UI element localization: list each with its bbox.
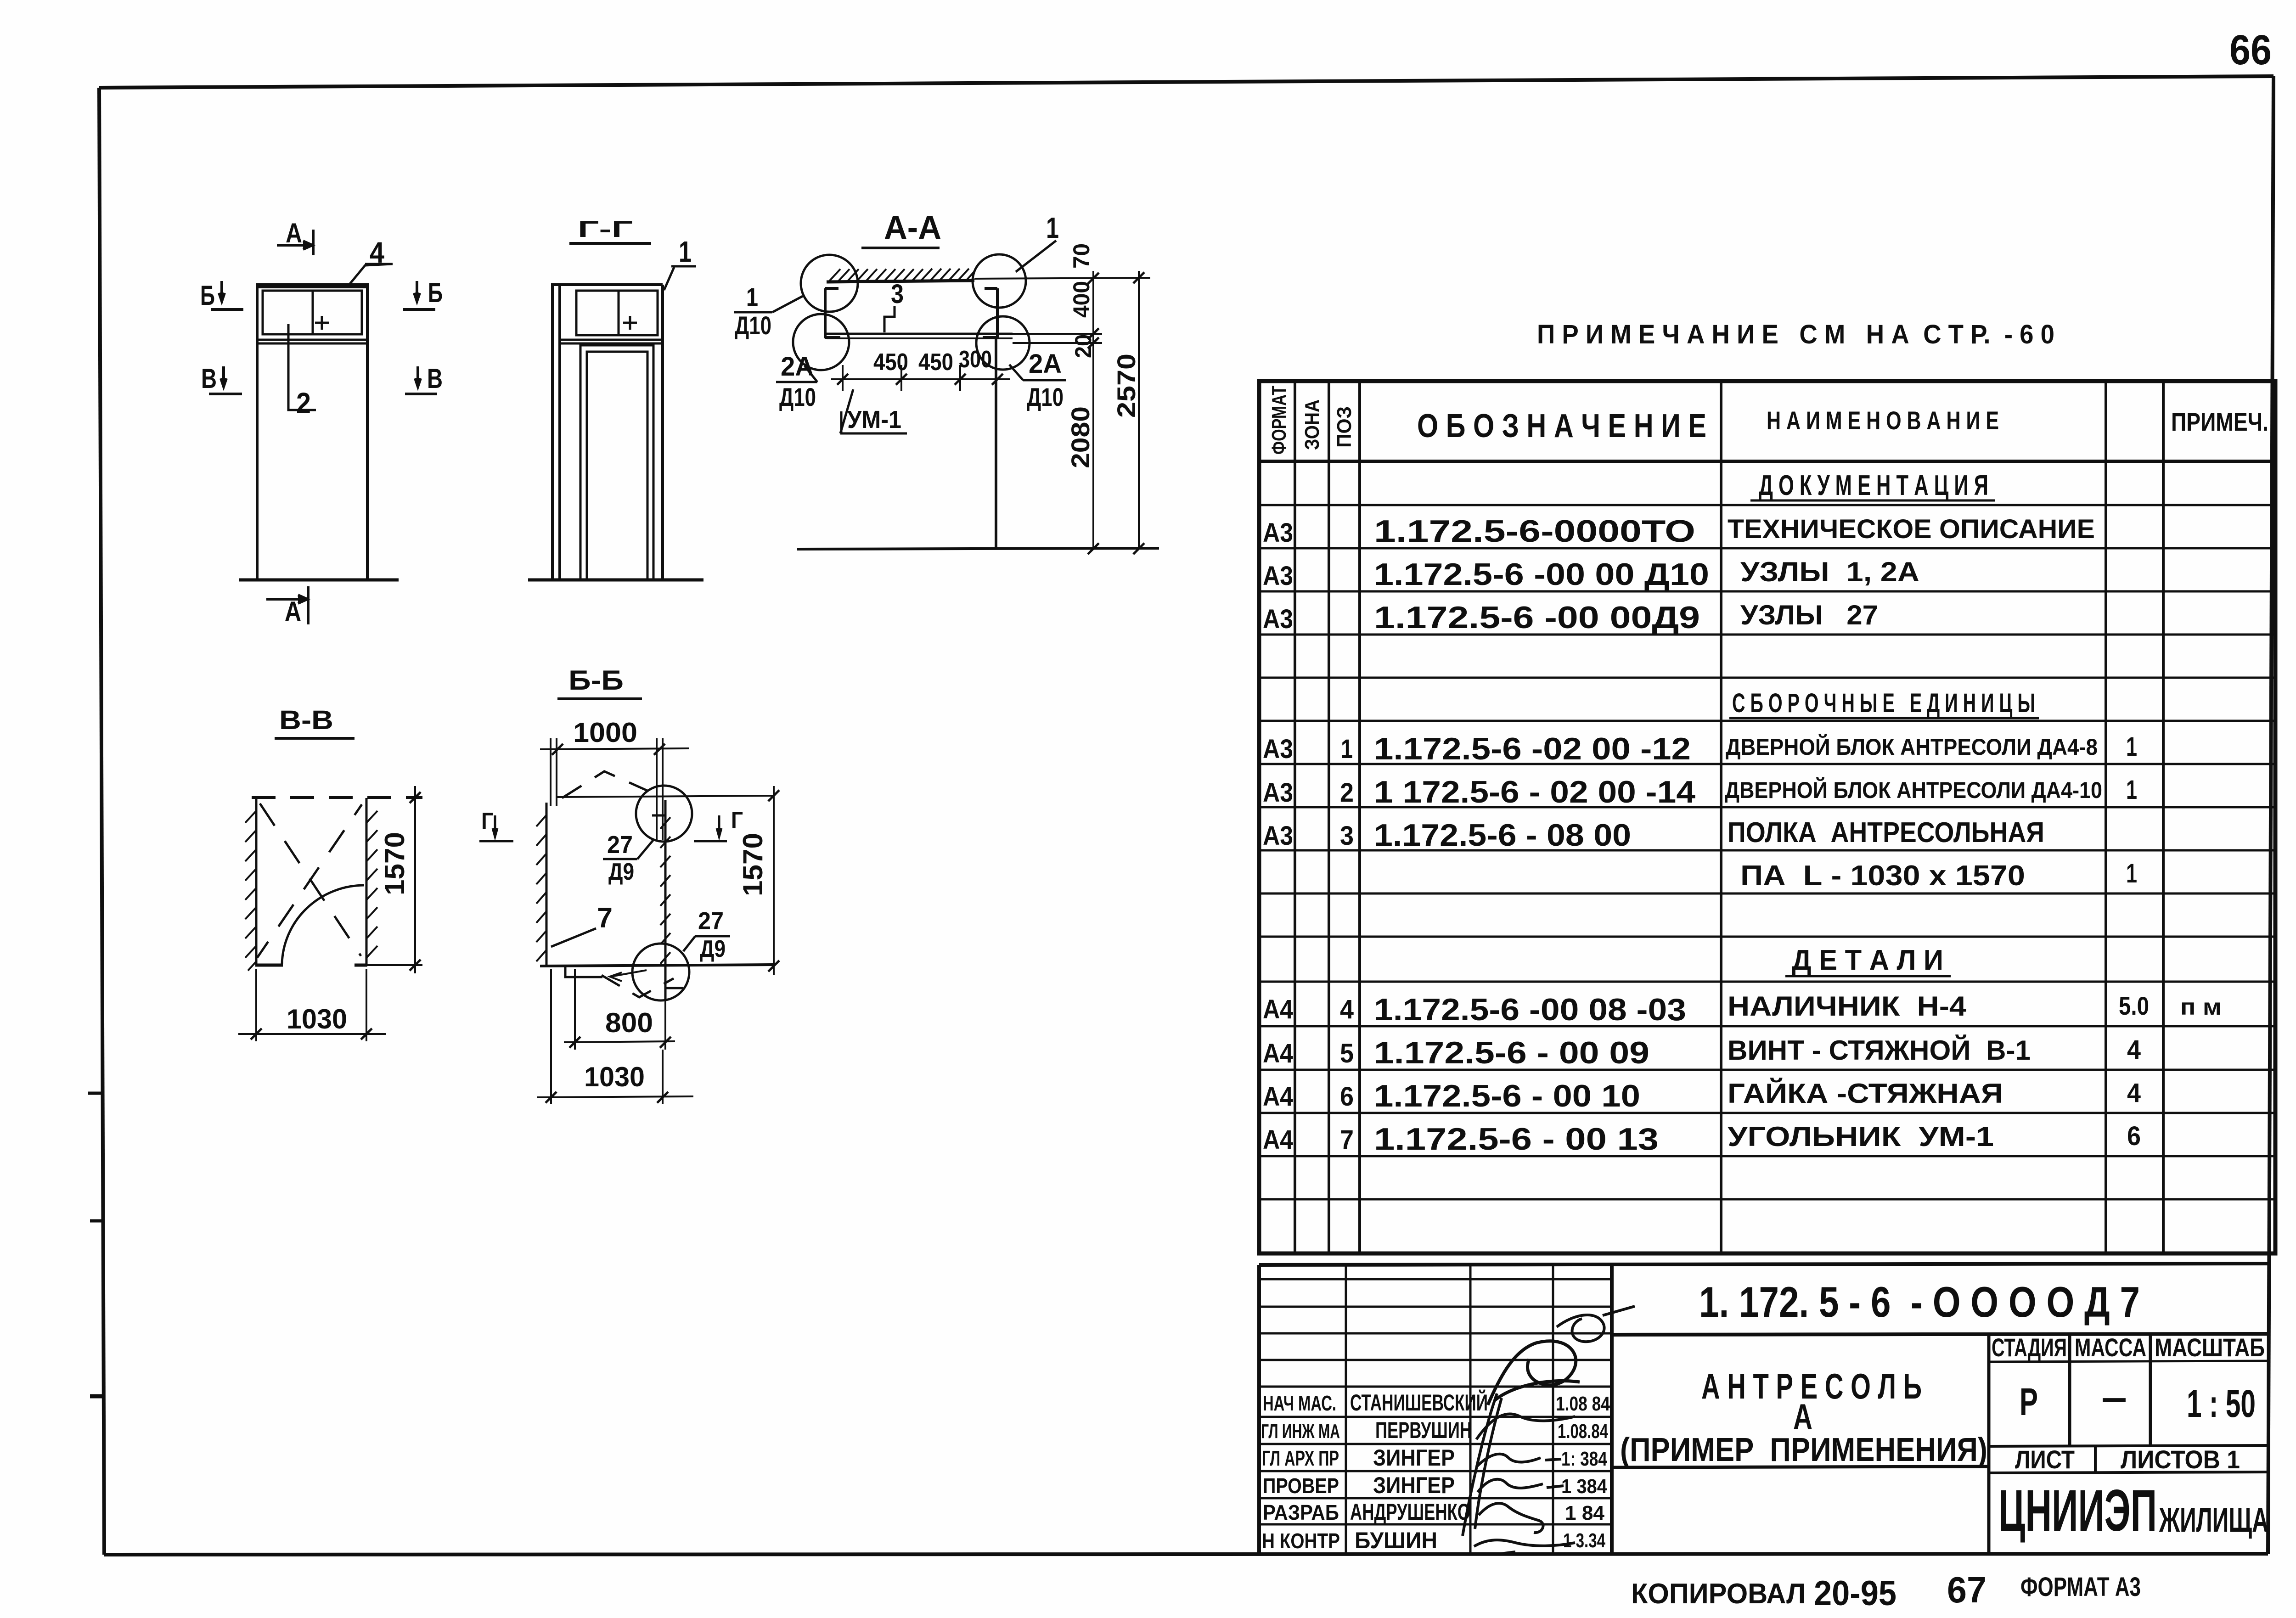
- svg-text:1: 384: 1: 384: [1561, 1448, 1607, 1470]
- СТАДИЯ МАССА МАСШТАБ dividers: [1989, 1335, 2150, 1554]
- svg-text:А3: А3: [1263, 518, 1293, 548]
- svg-text:АНДРУШЕНКО: АНДРУШЕНКО: [1350, 1499, 1470, 1525]
- svg-text:А4: А4: [1263, 1125, 1293, 1155]
- plan: top wall line: [827, 281, 974, 282]
- В-В: dim line 1030: [238, 1033, 386, 1035]
- svg-text:1: 1: [2126, 732, 2137, 762]
- Б-Б: center partition with hatch: [664, 800, 667, 1001]
- svg-text:А3: А3: [1263, 561, 1293, 591]
- svg-text:2: 2: [1340, 778, 1354, 808]
- ЛИСТ cell divider: [2094, 1446, 2097, 1473]
- svg-text:6: 6: [2127, 1121, 2141, 1151]
- svg-text:УГОЛЬНИК УМ-1: УГОЛЬНИК УМ-1: [1728, 1121, 1994, 1152]
- svg-text:1: 1: [746, 282, 758, 311]
- svg-text:ЦНИИЭП: ЦНИИЭП: [1998, 1478, 2157, 1544]
- В-В: dashed X diagonal 1: [260, 803, 361, 956]
- svg-text:1.08 84: 1.08 84: [1556, 1393, 1610, 1415]
- plan: bottom wall line: [797, 548, 1159, 549]
- svg-text:ЛИСТ: ЛИСТ: [2015, 1445, 2075, 1474]
- svg-text:Д10: Д10: [735, 311, 771, 340]
- svg-text:1.172.5-6 -00 00Д9: 1.172.5-6 -00 00Д9: [1374, 600, 1700, 635]
- svg-text:1030: 1030: [287, 1004, 347, 1034]
- svg-text:УМ-1: УМ-1: [847, 406, 901, 433]
- Б-Б: ceiling line: [557, 796, 774, 797]
- svg-text:450: 450: [918, 349, 953, 376]
- line under АНТРЕСОЛЬ box: [1612, 1466, 1989, 1467]
- svg-text:Б: Б: [200, 280, 215, 311]
- svg-text:П Р И М Е Ч А Н И Е С М Н: П Р И М Е Ч А Н И Е С М Н А С Т Р. - 6 0: [1537, 320, 2054, 349]
- plan: left jamb section: [825, 288, 840, 338]
- plan: right jamb section: [983, 288, 997, 338]
- svg-text:1.172.5-6 -00 08 -03: 1.172.5-6 -00 08 -03: [1374, 992, 1686, 1027]
- svg-text:1: 1: [679, 235, 692, 268]
- svg-text:РАЗРАБ: РАЗРАБ: [1263, 1500, 1339, 1524]
- svg-text:67: 67: [1947, 1569, 1986, 1610]
- svg-text:ПРОВЕР: ПРОВЕР: [1263, 1474, 1339, 1498]
- plan: detail circle top-right: [973, 254, 1026, 308]
- svg-text:1: 1: [1341, 734, 1353, 764]
- svg-text:Г: Г: [731, 807, 743, 834]
- svg-text:1.172.5-6 - 08 00: 1.172.5-6 - 08 00: [1374, 818, 1631, 853]
- fold tick 3 on left border: [90, 1394, 103, 1399]
- svg-text:НАЧ МАС.: НАЧ МАС.: [1263, 1391, 1336, 1415]
- svg-text:1030: 1030: [584, 1062, 645, 1092]
- svg-text:ПА L - 1030 х 1570: ПА L - 1030 х 1570: [1740, 860, 2025, 892]
- side view: antresol mullion: [618, 291, 620, 335]
- svg-text:ТЕХНИЧЕСКОЕ ОПИСАНИЕ: ТЕХНИЧЕСКОЕ ОПИСАНИЕ: [1728, 514, 2095, 544]
- svg-text:1 384: 1 384: [1561, 1475, 1607, 1498]
- svg-text:Д Е Т А Л И: Д Е Т А Л И: [1792, 944, 1943, 976]
- ЛИСТ row bottom line: [1989, 1472, 2268, 1473]
- svg-text:А-А: А-А: [884, 209, 941, 246]
- svg-text:1: 1: [2126, 859, 2137, 888]
- svg-text:МАСШТАБ: МАСШТАБ: [2155, 1333, 2265, 1362]
- svg-text:7: 7: [597, 902, 613, 934]
- svg-text:Д9: Д9: [700, 936, 726, 962]
- svg-text:4: 4: [1340, 994, 1354, 1024]
- svg-text:70: 70: [1069, 243, 1094, 269]
- svg-text:СТАДИЯ: СТАДИЯ: [1992, 1333, 2067, 1362]
- svg-text:4: 4: [2127, 1035, 2141, 1065]
- В-В: bottom threshold segments: [255, 964, 367, 967]
- svg-text:НАЛИЧНИК Н-4: НАЛИЧНИК Н-4: [1728, 991, 1967, 1022]
- svg-text:В-В: В-В: [279, 705, 333, 735]
- front elevation: antresol band frame: [257, 287, 367, 343]
- plan: right dim extension lines: [974, 278, 1150, 343]
- В-В: extension lines down: [256, 969, 366, 1041]
- svg-text:A: A: [285, 596, 301, 627]
- Б-Б: dim line 1000: [540, 748, 689, 749]
- title block outer frame: [1259, 1264, 2268, 1554]
- svg-text:4: 4: [2127, 1078, 2141, 1108]
- svg-text:Н А И М Е Н О В А Н И Е: Н А И М Е Н О В А Н И Е: [1767, 406, 1999, 435]
- svg-text:Г-Г: Г-Г: [578, 216, 633, 242]
- svg-text:ЖИЛИЩА: ЖИЛИЩА: [2159, 1501, 2268, 1539]
- svg-text:400: 400: [1069, 281, 1094, 318]
- svg-text:ГЛ ИНЖ МА: ГЛ ИНЖ МА: [1261, 1420, 1340, 1443]
- signature scribble 3: [1476, 1454, 1561, 1467]
- svg-text:1: 1: [2126, 775, 2137, 805]
- plan: wall hatch ticks: [829, 269, 974, 281]
- svg-text:ПОЗ: ПОЗ: [1333, 406, 1356, 448]
- Б-Б: dashed V below: [602, 975, 674, 997]
- В-В: left wall line: [255, 798, 258, 965]
- svg-text:1: 1: [1046, 211, 1059, 244]
- svg-text:1.172.5-6 - 00 13: 1.172.5-6 - 00 13: [1374, 1122, 1659, 1157]
- signature scribble 4: [1478, 1479, 1564, 1492]
- side view: cross mark on pane: [623, 316, 637, 330]
- svg-text:А3: А3: [1263, 821, 1293, 851]
- svg-text:6: 6: [1340, 1082, 1354, 1112]
- fold tick 1 on left border: [88, 1092, 102, 1095]
- fold tick 2 on left border: [90, 1219, 102, 1223]
- svg-text:КОПИРОВАЛ: КОПИРОВАЛ: [1631, 1578, 1806, 1610]
- spec table header bottom line: [1259, 460, 2275, 463]
- Б-Б: extension double lines top: [551, 738, 663, 840]
- svg-text:300: 300: [959, 346, 992, 373]
- svg-text:ДВЕРНОЙ БЛОК АНТРЕСОЛИ ДА4-8: ДВЕРНОЙ БЛОК АНТРЕСОЛИ ДА4-8: [1726, 734, 2098, 760]
- svg-text:3: 3: [891, 279, 904, 309]
- svg-text:1570: 1570: [737, 833, 768, 896]
- plan: outer vertical dim line: [1138, 271, 1140, 549]
- svg-text:1 172.5-6 - 02 00 -14: 1 172.5-6 - 02 00 -14: [1374, 775, 1695, 809]
- svg-text:ДВЕРНОЙ БЛОК АНТРЕСОЛИ ДА4-10: ДВЕРНОЙ БЛОК АНТРЕСОЛИ ДА4-10: [1725, 777, 2102, 803]
- svg-text:27: 27: [607, 831, 633, 859]
- plan: dim chain 450/450/300 extension lines: [843, 365, 960, 391]
- signature table row lines: [1259, 1279, 1612, 1524]
- svg-text:(ПРИМЕР ПРИМЕНЕНИЯ): (ПРИМЕР ПРИМЕНЕНИЯ): [1620, 1432, 1987, 1468]
- svg-text:Д9: Д9: [608, 859, 634, 885]
- signature scribble 6: [1474, 1540, 1575, 1554]
- line under doc number row: [1612, 1334, 2268, 1335]
- side view: antresol band: [560, 291, 663, 343]
- Б-Б: dim 1030 extensions: [551, 969, 663, 1104]
- svg-text:ЛИСТОВ 1: ЛИСТОВ 1: [2121, 1445, 2240, 1474]
- svg-text:1 : 50: 1 : 50: [2187, 1382, 2256, 1425]
- plan: door leaf double line: [827, 333, 1013, 335]
- СТАДИЯ header row bottom: [1989, 1361, 2268, 1362]
- svg-text:66: 66: [2229, 27, 2272, 73]
- svg-text:Б-Б: Б-Б: [568, 665, 624, 696]
- svg-text:УЗЛЫ 1, 2А: УЗЛЫ 1, 2А: [1740, 556, 1919, 587]
- svg-text:А3: А3: [1263, 734, 1293, 764]
- svg-text:1.172.5-6 - 00 10: 1.172.5-6 - 00 10: [1374, 1079, 1640, 1113]
- svg-text:Д О К У М Е Н Т А Ц И Я: Д О К У М Е Н Т А Ц И Я: [1759, 470, 1988, 501]
- label 2 with leader: [288, 324, 316, 410]
- svg-text:Р: Р: [2020, 1380, 2038, 1423]
- svg-text:ПЕРВУШИН: ПЕРВУШИН: [1375, 1417, 1472, 1443]
- svg-text:В: В: [427, 363, 443, 394]
- svg-text:А3: А3: [1263, 604, 1293, 634]
- Б-Б: detail circle top 27/Д9: [636, 786, 692, 842]
- plan: detail circle bottom-right: [976, 316, 1030, 370]
- svg-text:–: –: [2101, 1376, 2127, 1419]
- Б-Б: dim line 1030: [537, 1096, 693, 1097]
- svg-text:27: 27: [698, 907, 724, 935]
- plan: dim line 450/450/300: [831, 378, 1010, 380]
- front elevation: antresol mullion: [312, 291, 314, 334]
- svg-text:1 3.34: 1 3.34: [1563, 1529, 1605, 1552]
- svg-text:ПОЛКА АНТРЕСОЛЬНАЯ: ПОЛКА АНТРЕСОЛЬНАЯ: [1728, 817, 2044, 848]
- svg-text:Г: Г: [481, 808, 493, 835]
- spec table row lines: [1259, 505, 2275, 1199]
- svg-text:20-95: 20-95: [1814, 1574, 1896, 1613]
- signature table verticals: [1346, 1265, 1553, 1554]
- plan: detail circle bottom-left: [793, 314, 849, 370]
- svg-text:1.172.5-6 -02 00 -12: 1.172.5-6 -02 00 -12: [1374, 731, 1691, 766]
- svg-text:450: 450: [873, 349, 908, 376]
- front elevation: cross mark on pane: [315, 316, 329, 330]
- signature scribble 2: [1463, 1393, 1575, 1536]
- section mark Б left: [211, 281, 243, 309]
- Б-Б: dim line 1570: [773, 786, 775, 975]
- svg-text:А: А: [1793, 1396, 1812, 1437]
- svg-text:1. 172. 5 - 6 - О О О О Д 7: 1. 172. 5 - 6 - О О О О Д 7: [1699, 1278, 2140, 1326]
- svg-text:2: 2: [296, 387, 311, 420]
- svg-text:ПРИМЕЧ.: ПРИМЕЧ.: [2171, 407, 2268, 436]
- side view: wall and jamb verticals: [552, 283, 663, 580]
- svg-text:ЗИНГЕР: ЗИНГЕР: [1373, 1445, 1455, 1471]
- svg-text:п м: п м: [2180, 994, 2222, 1020]
- svg-text:1.172.5-6-0000ТО: 1.172.5-6-0000ТО: [1374, 514, 1695, 549]
- signature scribble 1: [1488, 1341, 1580, 1405]
- svg-text:5: 5: [1340, 1039, 1354, 1068]
- side view: door leaf double frame: [580, 345, 653, 580]
- svg-text:ФОРМАТ А3: ФОРМАТ А3: [2020, 1572, 2141, 1602]
- Б-Б: detail circle bottom 27/Д9: [632, 944, 689, 1000]
- svg-text:А3: А3: [1263, 778, 1293, 808]
- svg-text:800: 800: [605, 1007, 653, 1038]
- В-В: bottom extension to dim: [366, 964, 422, 966]
- section mark Б right: [403, 281, 435, 309]
- section mark A top: [277, 230, 313, 255]
- plan: inner vertical dim line: [1092, 271, 1094, 549]
- В-В: dashed X diagonal 2: [257, 804, 362, 958]
- spec table vertical column lines: [1295, 381, 2163, 1253]
- svg-text:МАССА: МАССА: [2075, 1333, 2146, 1362]
- svg-text:5.0: 5.0: [2119, 991, 2149, 1020]
- svg-text:Д10: Д10: [1027, 382, 1064, 411]
- plan: detail circle top-left: [801, 255, 858, 312]
- Б-Б: arrow at step: [611, 970, 647, 977]
- svg-text:2А: 2А: [781, 352, 814, 382]
- svg-text:А4: А4: [1263, 1039, 1293, 1068]
- svg-text:1.08.84: 1.08.84: [1558, 1420, 1608, 1443]
- svg-text:ФОРМАТ: ФОРМАТ: [1268, 386, 1290, 455]
- В-В: left wall hatch: [245, 811, 256, 971]
- Б-Б: left wall line with hatch: [546, 803, 548, 966]
- svg-text:1570: 1570: [379, 832, 410, 895]
- Б-Б: bottom floor line with step: [540, 965, 774, 966]
- В-В: top dashed lintel line: [252, 796, 422, 799]
- svg-text:А4: А4: [1263, 994, 1293, 1024]
- В-В: right wall hatch: [366, 811, 377, 958]
- svg-text:1.172.5-6 -00 00 Д10: 1.172.5-6 -00 00 Д10: [1374, 557, 1709, 592]
- svg-text:1000: 1000: [573, 717, 637, 748]
- svg-text:Н КОНТР: Н КОНТР: [1262, 1529, 1340, 1553]
- section mark В right: [405, 366, 437, 394]
- spec table outer frame: [1259, 381, 2275, 1253]
- svg-text:A: A: [286, 218, 302, 248]
- svg-text:В: В: [201, 363, 217, 394]
- svg-text:А4: А4: [1263, 1082, 1293, 1112]
- signature scribble 5: [1479, 1503, 1543, 1533]
- svg-text:ВИНТ - СТЯЖНОЙ В-1: ВИНТ - СТЯЖНОЙ В-1: [1728, 1035, 2031, 1066]
- svg-text:СТАНИШЕВСКИЙ: СТАНИШЕВСКИЙ: [1350, 1389, 1488, 1416]
- svg-text:Б: Б: [428, 277, 443, 308]
- svg-text:2А: 2А: [1029, 349, 1062, 379]
- svg-text:БУШИН: БУШИН: [1355, 1528, 1437, 1553]
- svg-text:ГЛ АРХ ПР: ГЛ АРХ ПР: [1262, 1446, 1339, 1470]
- svg-text:УЗЛЫ 27: УЗЛЫ 27: [1740, 600, 1878, 630]
- svg-text:2570: 2570: [1112, 354, 1141, 418]
- svg-text:2080: 2080: [1066, 406, 1095, 468]
- svg-text:1.172.5-6 - 00 09: 1.172.5-6 - 00 09: [1374, 1035, 1649, 1070]
- plan: wall edge vertical below: [995, 338, 997, 549]
- В-В: dim line 1570 vertical: [414, 786, 416, 973]
- Б-Б: dim 800 extensions: [575, 969, 665, 1050]
- svg-text:Д10: Д10: [779, 382, 816, 411]
- svg-text:ГАЙКА -СТЯЖНАЯ: ГАЙКА -СТЯЖНАЯ: [1728, 1078, 2003, 1109]
- Б-Б: dim line 800: [564, 1041, 675, 1042]
- flourish above signatures: [1557, 1306, 1635, 1342]
- side view: floor line: [528, 579, 703, 582]
- svg-text:О Б О З Н А Ч Е Н И Е: О Б О З Н А Ч Е Н И Е: [1417, 408, 1706, 444]
- front elevation: floor line: [239, 579, 399, 582]
- svg-text:3: 3: [1340, 821, 1354, 851]
- section mark A bottom: [266, 586, 308, 624]
- section mark В left: [209, 366, 242, 394]
- В-В: door swing arc: [282, 885, 364, 964]
- svg-text:20: 20: [1070, 334, 1096, 358]
- front elevation: outer outline: [257, 285, 367, 580]
- svg-text:С Б О Р О Ч Н Ы Е Е Д И Н И: С Б О Р О Ч Н Ы Е Е Д И Н И Ц Ы: [1732, 688, 2035, 718]
- Б-Б: dashed roof chevron: [562, 771, 648, 798]
- svg-text:7: 7: [1340, 1125, 1354, 1155]
- svg-text:ЗИНГЕР: ЗИНГЕР: [1373, 1472, 1455, 1498]
- ЛИСТ row top line: [1989, 1445, 2268, 1446]
- svg-text:ЗОНА: ЗОНА: [1301, 399, 1323, 450]
- В-В: right wall line: [366, 798, 368, 965]
- svg-text:1 84: 1 84: [1565, 1502, 1605, 1524]
